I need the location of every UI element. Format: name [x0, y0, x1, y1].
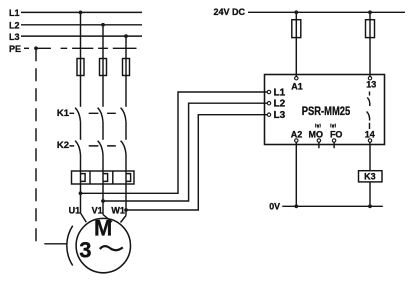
svg-text:L3: L3 — [274, 110, 286, 121]
svg-text:A1: A1 — [291, 82, 303, 92]
svg-text:13: 13 — [366, 80, 376, 90]
svg-text:PSR-MM25: PSR-MM25 — [302, 104, 351, 118]
svg-text:3: 3 — [79, 237, 91, 262]
svg-text:0V: 0V — [269, 201, 280, 211]
svg-text:A2: A2 — [291, 130, 303, 140]
svg-text:V1: V1 — [92, 206, 103, 216]
svg-text:W1: W1 — [111, 206, 125, 216]
svg-text:PE: PE — [9, 44, 21, 54]
svg-text:14: 14 — [365, 130, 375, 140]
svg-text:L1: L1 — [9, 8, 20, 18]
svg-text:M: M — [94, 216, 112, 241]
svg-text:K3: K3 — [364, 171, 376, 181]
svg-text:L2: L2 — [274, 99, 286, 110]
svg-text:K1: K1 — [57, 108, 70, 119]
svg-text:FO: FO — [330, 130, 343, 140]
svg-text:U1: U1 — [69, 206, 81, 216]
svg-text:K2: K2 — [57, 140, 69, 151]
svg-text:24V DC: 24V DC — [213, 7, 245, 17]
svg-text:L2: L2 — [9, 21, 20, 31]
svg-text:L1: L1 — [274, 88, 286, 99]
svg-text:MO: MO — [309, 130, 324, 140]
svg-text:L3: L3 — [9, 32, 20, 42]
